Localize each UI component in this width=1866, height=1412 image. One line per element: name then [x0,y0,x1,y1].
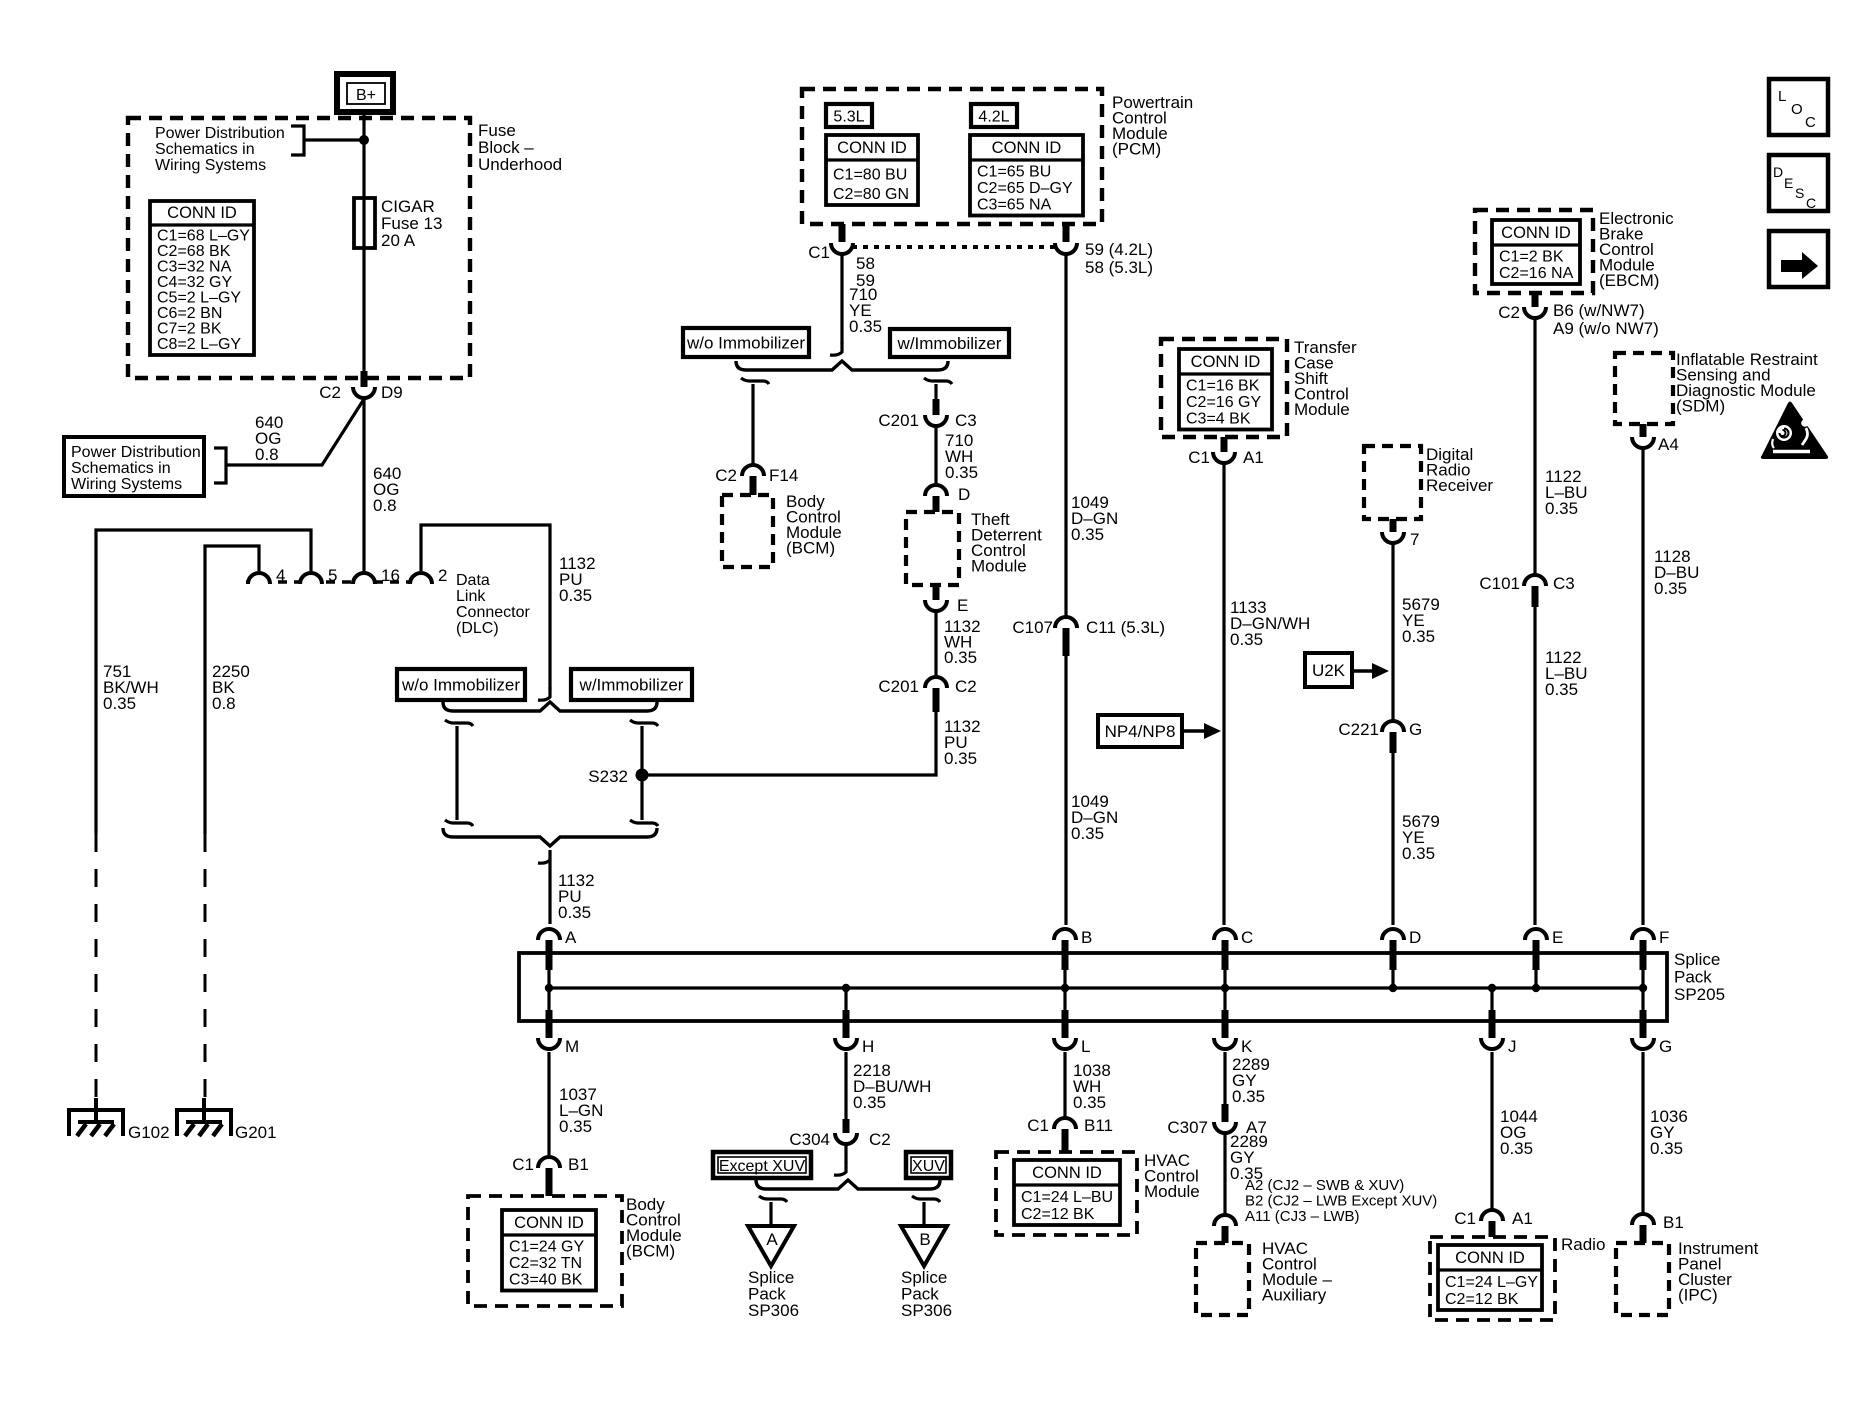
svg-text:C7=2 BK: C7=2 BK [157,321,222,338]
label 58 59 [856,254,875,290]
svg-text:A9 (w/o NW7): A9 (w/o NW7) [1553,319,1659,338]
wire B+ to fuse [362,112,365,198]
svg-text:F: F [1659,928,1669,947]
svg-text:SP306: SP306 [901,1301,952,1320]
svg-text:C2=12 BK: C2=12 BK [1445,1291,1519,1308]
callout NP4/NP8 [1098,715,1221,747]
data link connector DLC dashed face [246,580,437,583]
wire option A to splice pack SP306 A [759,1196,787,1226]
svg-text:G102: G102 [128,1123,170,1142]
svg-text:CONN ID: CONN ID [167,204,237,222]
label 5679 YE 0.35 upper [1402,595,1440,646]
DLC pin 16 [353,566,400,585]
wire SP205 J to radio [1490,1052,1493,1211]
svg-text:H: H [862,1037,874,1056]
svg-text:C2: C2 [955,677,977,696]
option brace upper select [736,361,948,370]
svg-text:C3=40 BK: C3=40 BK [509,1272,583,1289]
svg-text:0.35: 0.35 [1073,1093,1106,1112]
note power distribution schematics (left box) [64,437,226,496]
fuse CIGAR Fuse 13 20 A [354,197,442,250]
svg-text:Pack: Pack [1674,968,1712,987]
svg-text:B6 (w/NW7): B6 (w/NW7) [1553,301,1645,320]
label 4.2L [971,104,1017,127]
label 1044 OG 0.35 [1500,1107,1538,1158]
power symbol B+ [337,74,393,112]
svg-text:C2=65 D–GY: C2=65 D–GY [977,180,1073,197]
legend box DESC [1769,155,1828,211]
svg-text:A1: A1 [1243,448,1264,467]
connector C2 D9 [319,371,402,402]
svg-text:58 (5.3L): 58 (5.3L) [1085,258,1153,277]
wire dashed to G201 [204,834,207,1100]
svg-text:A: A [766,1230,778,1249]
svg-text:C: C [1805,114,1816,131]
svg-text:A2 (CJ2 – SWB & XUV): A2 (CJ2 – SWB & XUV) [1245,1177,1404,1194]
splice pack SP205 box [519,950,1725,1021]
svg-text:C4=32 GY: C4=32 GY [157,274,232,291]
svg-text:0.35: 0.35 [559,586,592,605]
svg-text:B11: B11 [1084,1116,1113,1135]
svg-text:C2: C2 [715,466,737,485]
svg-text:(SDM): (SDM) [1676,397,1725,416]
SP205 terminal C [1214,928,1253,988]
connector C2 B6/A9 EBCM [1498,293,1659,338]
svg-text:C2: C2 [869,1130,891,1149]
legend box LOC [1769,79,1828,135]
connector E theft deterrent [925,585,968,615]
option box Except XUV [713,1152,811,1178]
svg-text:C1: C1 [1454,1209,1476,1228]
option box w/o Immobilizer (lower) [397,669,525,700]
svg-text:D: D [1773,164,1783,180]
svg-text:0.35: 0.35 [849,317,882,336]
svg-text:CONN ID: CONN ID [1501,224,1571,242]
legend box forward arrow [1769,231,1828,287]
wire select to splice pack A [538,850,550,924]
w/o immobilizer bypass wire [445,720,473,826]
svg-text:0.35: 0.35 [1500,1139,1533,1158]
DLC pin 4 [248,566,285,585]
svg-text:G: G [1659,1037,1672,1056]
svg-text:Splice: Splice [1674,950,1720,969]
wire C304 to xuv select [834,1144,846,1175]
svg-text:E: E [1552,928,1563,947]
connector C101 C3 [1479,574,1574,607]
svg-text:Schematics in: Schematics in [71,460,171,477]
CONN ID table transfer case [1179,349,1272,430]
body control module BCM dashed box (upper) [722,492,842,567]
wire PCM 59/58 to C107 [1064,255,1067,618]
svg-text:C5=2 L–GY: C5=2 L–GY [157,290,241,307]
label 1036 GY 0.35 [1650,1107,1688,1158]
note power distribution schematics (top) with bracket [155,125,364,174]
svg-text:59 (4.2L): 59 (4.2L) [1085,240,1153,259]
svg-text:C221: C221 [1338,720,1379,739]
svg-text:B: B [1081,928,1092,947]
wire C2 down to S232 [648,710,936,775]
SP205 terminal E [1525,928,1563,988]
SP205 terminal M [538,988,579,1056]
HVAC control module auxiliary dashed box [1196,1239,1332,1315]
wire DLC pin2 to splice-pack feed [421,525,550,690]
svg-text:A: A [565,928,577,947]
svg-text:w/Immobilizer: w/Immobilizer [579,676,684,695]
svg-text:Power Distribution: Power Distribution [155,125,285,142]
svg-text:(PCM): (PCM) [1112,140,1161,159]
airbag warning icon [1761,402,1828,460]
radio dashed box [1430,1235,1605,1320]
theft deterrent control module dashed box [906,510,1042,585]
DLC pin 2 [410,566,447,585]
w/o branch wire to BCM connector [741,378,769,466]
svg-text:A1: A1 [1512,1209,1533,1228]
svg-text:CONN ID: CONN ID [1191,353,1261,371]
wire C107 to SP205 B [1064,656,1067,925]
svg-text:0.35: 0.35 [1232,1087,1265,1106]
svg-text:Link: Link [456,588,486,605]
connector B1 IPC [1632,1213,1684,1243]
svg-text:C2: C2 [1498,303,1520,322]
option box w/Immobilizer (upper) [890,329,1009,357]
digital radio receiver dashed box [1364,445,1493,519]
splice pack SP306 A [748,1226,799,1320]
svg-text:Underhood: Underhood [478,155,562,174]
connector C107 C11 [1012,617,1165,656]
label 710 WH 0.35 [945,431,978,482]
label pin options A2 B2 A11 [1245,1177,1437,1225]
svg-text:E: E [1784,175,1793,191]
wire EBCM to C101 [1533,319,1536,574]
connector C1 B1 BCM [512,1155,589,1196]
svg-text:C8=2 L–GY: C8=2 L–GY [157,336,241,353]
svg-text:0.35: 0.35 [1402,627,1435,646]
connector C2 F14 [715,465,798,495]
powertrain control module PCM dashed box [802,89,1193,224]
svg-text:Radio: Radio [1561,1235,1605,1254]
connector A4 SDM [1632,424,1679,454]
wire SDM to SP205 F [1641,449,1644,925]
SP205 terminal A [538,928,577,988]
svg-text:CONN ID: CONN ID [1032,1164,1102,1182]
svg-text:0.35: 0.35 [944,749,977,768]
label 1049 D-GN 0.35 upper [1071,493,1118,544]
svg-text:XUV: XUV [912,1158,945,1175]
svg-text:C2=12 BK: C2=12 BK [1021,1206,1095,1223]
svg-text:CONN ID: CONN ID [837,139,907,157]
svg-text:C: C [1806,195,1816,211]
wire D9 to DLC pin16 [362,399,365,572]
wire PCM C1 down [830,255,842,355]
svg-text:B1: B1 [568,1155,589,1174]
svg-text:0.35: 0.35 [944,648,977,667]
label 640 OG 0.8 right [373,464,401,515]
svg-text:Receiver: Receiver [1426,476,1493,495]
splice S232 [588,767,648,786]
ground G201 [177,1098,277,1142]
label 1133 D-GN/WH 0.35 [1230,598,1310,649]
svg-text:0.35: 0.35 [1650,1139,1683,1158]
CONN ID table HVAC [1014,1160,1120,1225]
svg-text:B+: B+ [356,87,376,104]
svg-text:Wiring Systems: Wiring Systems [155,157,266,174]
label 1122 L-BU 0.35 lower [1545,648,1588,699]
connector HVAC aux [1214,1215,1236,1243]
PCM connector face dotted line [852,245,1056,249]
svg-text:0.35: 0.35 [945,463,978,482]
svg-text:0.35: 0.35 [1545,680,1578,699]
svg-text:C2=32 TN: C2=32 TN [509,1255,582,1272]
svg-text:0.8: 0.8 [255,445,279,464]
CONN ID table BCM [502,1210,596,1291]
label 5.3L [826,104,872,127]
svg-text:C201: C201 [878,677,919,696]
instrument panel cluster IPC dashed box [1616,1239,1759,1315]
HVAC control module dashed box [996,1151,1200,1235]
svg-text:C1=80 BU: C1=80 BU [833,167,907,184]
svg-text:Module: Module [1294,400,1350,419]
svg-text:B2 (CJ2 – LWB Except XUV): B2 (CJ2 – LWB Except XUV) [1245,1193,1437,1210]
CONN ID table radio [1438,1245,1542,1310]
connector C1 A1 radio [1454,1209,1533,1237]
svg-text:0.35: 0.35 [103,694,136,713]
label 2250 BK 0.8 [212,662,250,713]
svg-text:C1=68 L–GY: C1=68 L–GY [157,228,250,245]
label 5679 YE 0.35 lower [1402,812,1440,863]
svg-text:B1: B1 [1663,1213,1684,1232]
svg-text:D: D [958,485,970,504]
svg-text:C1: C1 [808,243,830,262]
svg-text:A11 (CJ3 – LWB): A11 (CJ3 – LWB) [1245,1208,1359,1225]
svg-text:S: S [1795,185,1804,201]
splice pack SP306 B [901,1226,952,1320]
svg-text:D9: D9 [381,383,403,402]
electronic brake control module EBCM dashed box [1475,209,1674,293]
svg-text:0.35: 0.35 [1071,824,1104,843]
svg-text:C1=16 BK: C1=16 BK [1186,378,1260,395]
w/immobilizer wire with splice [630,720,658,826]
svg-text:U2K: U2K [1312,661,1346,680]
svg-text:w/o Immobilizer: w/o Immobilizer [686,334,805,353]
svg-text:4: 4 [276,566,285,585]
svg-text:C2=16 NA: C2=16 NA [1499,265,1574,282]
wire C307 to HVAC aux [1223,1134,1226,1216]
label 1132 PU 0.35 upper [559,554,596,605]
svg-text:C3=4 BK: C3=4 BK [1186,411,1251,428]
svg-text:5.3L: 5.3L [833,109,864,126]
svg-text:w/Immobilizer: w/Immobilizer [897,334,1002,353]
wire SP205 M to BCM [547,1052,550,1158]
svg-text:(IPC): (IPC) [1678,1286,1718,1305]
svg-text:B: B [919,1230,930,1249]
wire diagonal D9 to note bracket [226,399,364,465]
svg-text:C1=24 L–GY: C1=24 L–GY [1445,1274,1538,1291]
wire into lower select [538,687,550,700]
svg-text:C2=16 GY: C2=16 GY [1186,394,1261,411]
svg-text:0.35: 0.35 [1545,499,1578,518]
option brace lower select top [443,702,657,711]
label 1132 WH 0.35 [944,617,981,667]
svg-text:0.8: 0.8 [212,694,236,713]
svg-text:0.35: 0.35 [1654,579,1687,598]
option brace lower select bottom [443,828,657,846]
SP205 terminal K [1214,988,1253,1056]
svg-text:Power Distribution: Power Distribution [71,444,201,461]
svg-text:Connector: Connector [456,604,530,621]
wire fuse to connector C2 D9 [362,248,365,371]
svg-text:Data: Data [456,572,490,589]
SP205 terminal J [1481,988,1517,1056]
svg-text:D: D [1409,928,1421,947]
wire E to C201 C2 [934,612,937,676]
label 1128 D-BU 0.35 [1654,547,1699,598]
svg-text:0.35: 0.35 [1071,525,1104,544]
svg-text:L: L [1081,1037,1090,1056]
svg-text:0.35: 0.35 [1402,844,1435,863]
CONN ID table PCM 5.3L [826,135,918,205]
label data link connector DLC [456,572,530,637]
wire SP205 K to C307 [1223,1052,1226,1104]
svg-text:K: K [1241,1037,1253,1056]
label 1038 WH 0.35 [1073,1061,1111,1112]
label 751 BK/WH 0.35 [103,662,159,713]
PCM pin C1 [808,224,853,262]
svg-text:C1: C1 [1027,1116,1049,1135]
CONN ID table EBCM [1492,220,1580,284]
connector C221 G [1338,720,1422,753]
connector D theft deterrent [925,485,970,512]
svg-text:C6=2 BN: C6=2 BN [157,305,222,322]
SP205 terminal H [835,988,874,1056]
label 1132 PU 0.35 lower [558,871,595,922]
svg-text:C: C [1241,928,1253,947]
label 1122 L-BU 0.35 upper [1545,467,1588,518]
SP205 terminal B [1054,928,1092,988]
svg-text:C1=24 L–BU: C1=24 L–BU [1021,1189,1113,1206]
connector C1 A1 transfer case [1188,437,1264,467]
SP205 terminal G [1632,988,1672,1056]
svg-text:20 A: 20 A [381,231,416,250]
svg-text:C2=68 BK: C2=68 BK [157,243,231,260]
CONN ID table PCM 4.2L [970,135,1083,216]
option box XUV [906,1152,951,1178]
wire option B to splice pack SP306 B [912,1196,940,1226]
svg-text:Module: Module [1144,1182,1200,1201]
svg-text:5: 5 [328,566,337,585]
svg-text:C1=65 BU: C1=65 BU [977,164,1051,181]
svg-text:C304: C304 [789,1130,830,1149]
svg-text:C1=24 GY: C1=24 GY [509,1239,584,1256]
svg-text:2: 2 [438,566,447,585]
svg-text:SP306: SP306 [748,1301,799,1320]
option brace xuv select [756,1180,940,1189]
svg-text:G: G [1409,720,1422,739]
svg-text:S232: S232 [588,767,628,786]
connector C1 B11 HVAC [1027,1116,1113,1152]
svg-text:16: 16 [381,566,400,585]
connector 7 digital radio [1382,519,1419,549]
svg-text:C11 (5.3L): C11 (5.3L) [1086,618,1165,637]
svg-text:4.2L: 4.2L [978,109,1009,126]
wire SP205 G to IPC [1641,1052,1644,1215]
w/immobilizer branch wire [924,378,952,400]
wire DLC pin4 to ground G201 [205,546,259,834]
connector C201 C2 [878,677,976,712]
svg-text:Except XUV: Except XUV [719,1158,806,1175]
svg-text:0.35: 0.35 [559,1117,592,1136]
svg-text:O: O [1791,101,1803,118]
DLC pin 5 [300,566,337,585]
label 640 OG 0.8 left [255,413,283,464]
svg-text:SP205: SP205 [1674,985,1725,1004]
connector C201 C3 [878,399,976,430]
svg-text:C1: C1 [512,1155,534,1174]
connector C304 C2 [789,1119,890,1149]
wire C101 to SP205 E [1533,607,1536,925]
svg-text:J: J [1508,1037,1517,1056]
label 2289 GY 0.35 upper [1232,1055,1270,1106]
wire SP205 L to HVAC [1063,1052,1066,1119]
svg-text:C107: C107 [1012,618,1053,637]
svg-text:CONN ID: CONN ID [992,139,1062,157]
svg-text:C201: C201 [878,411,919,430]
callout U2K [1305,653,1389,687]
wire C221 to SP205 D [1391,752,1394,925]
svg-text:M: M [565,1037,579,1056]
ground G102 [69,1098,170,1142]
body control module BCM dashed box (lower) [468,1195,682,1306]
svg-text:Wiring Systems: Wiring Systems [71,476,182,493]
option box w/o Immobilizer (upper) [683,328,809,357]
svg-text:C307: C307 [1167,1118,1208,1137]
wire 7 to C221 [1391,544,1394,720]
wire SP205 H to C304 [844,1052,847,1119]
svg-text:CONN ID: CONN ID [514,1214,584,1232]
wire C3 to theft module [934,427,937,484]
CONN ID table fuse block [150,201,254,355]
option box w/Immobilizer (lower) [571,669,692,700]
svg-text:A4: A4 [1658,435,1679,454]
svg-text:C2=80 GN: C2=80 GN [833,186,909,203]
svg-text:F14: F14 [769,466,798,485]
svg-text:Auxiliary: Auxiliary [1262,1286,1327,1305]
svg-text:Schematics in: Schematics in [155,141,255,158]
label 2218 D-BU/WH 0.35 [853,1061,931,1112]
svg-text:0.8: 0.8 [373,496,397,515]
svg-text:C2: C2 [319,383,341,402]
SP205 terminal D [1382,928,1421,988]
label 1049 D-GN 0.35 lower [1071,792,1118,843]
fuse block underhood dashed box [128,118,562,378]
svg-text:7: 7 [1410,530,1419,549]
svg-text:w/o Immobilizer: w/o Immobilizer [401,676,520,695]
svg-text:(EBCM): (EBCM) [1599,271,1659,290]
svg-text:CONN ID: CONN ID [1455,1249,1525,1267]
PCM pin 59/58 [1055,224,1153,277]
svg-text:0.35: 0.35 [1230,630,1263,649]
svg-text:C3=32 NA: C3=32 NA [157,259,232,276]
svg-text:0.35: 0.35 [558,903,591,922]
svg-text:G201: G201 [235,1123,277,1142]
label 1132 PU 0.35 mid [944,717,981,768]
label 2289 GY 0.35 lower [1230,1132,1268,1183]
SP205 internal bus [549,986,1643,989]
wire transfer case to SP205 C [1222,464,1225,925]
transfer case shift control module dashed box [1161,338,1357,437]
wire DLC pin5 to ground G102 [96,530,311,1100]
svg-text:C101: C101 [1479,574,1520,593]
SP205 terminal L [1054,988,1090,1056]
